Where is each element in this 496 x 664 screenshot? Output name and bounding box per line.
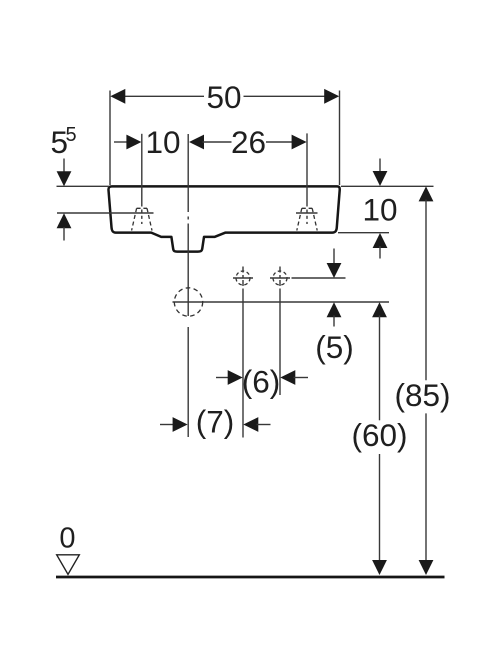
- svg-text:(85): (85): [394, 377, 450, 413]
- svg-text:(6): (6): [242, 364, 281, 400]
- dimension 26 line and right arrow: [266, 141, 294, 143]
- centerline right tap hole: [306, 133, 308, 206]
- wire level line basin-top left: [57, 185, 110, 187]
- centerline drain/trap vertical: [187, 134, 189, 212]
- wire tap-hole level line: [57, 212, 154, 214]
- svg-text:(60): (60): [351, 417, 407, 453]
- dimension 10 top: stem and arrow: [114, 141, 129, 143]
- svg-text:50: 50: [206, 79, 241, 115]
- left tap hole symbol: [132, 208, 152, 230]
- right tap hole symbol: [297, 208, 317, 230]
- dimension 50 arrow left: [110, 89, 125, 104]
- shared arrow between 10 and 26: [189, 135, 204, 150]
- svg-text:(5): (5): [315, 329, 354, 365]
- trap hole dashed circle: [174, 288, 202, 316]
- extension line right of 50 dim: [339, 91, 341, 186]
- basin outline: [108, 186, 339, 251]
- dimension (5) arrows: [333, 249, 335, 266]
- svg-text:26: 26: [231, 124, 266, 160]
- wire trap level line: [173, 301, 390, 303]
- dimension (85) vertical: [419, 186, 434, 201]
- wire level line basin-top right: [341, 185, 434, 187]
- svg-text:(7): (7): [196, 404, 235, 440]
- svg-text:10: 10: [145, 124, 180, 160]
- svg-text:5: 5: [66, 124, 77, 146]
- dimension 10 right arrows: [379, 159, 381, 174]
- dimension 50 line: [123, 95, 326, 97]
- svg-text:10: 10: [362, 192, 397, 228]
- wire basin-bottom level line right: [338, 232, 389, 234]
- dimension (6): [216, 377, 230, 379]
- fixing hole left: [236, 271, 250, 285]
- ground line: [56, 576, 445, 579]
- wire fixing-hole level line: [292, 277, 346, 279]
- fixing hole right: [273, 271, 287, 285]
- svg-text:0: 0: [59, 523, 75, 555]
- right tap hole cross tick: [296, 212, 318, 214]
- dimension (60) vertical: [372, 302, 387, 317]
- fixing hole left vertical extension: [242, 290, 244, 438]
- dimension (7): [160, 424, 174, 426]
- datum triangle: [57, 555, 80, 575]
- centerline left tap hole: [141, 134, 143, 207]
- fixing hole right vertical extension: [279, 290, 281, 395]
- dimension 5^5 arrows: [63, 159, 65, 173]
- dimension 50 arrow right: [324, 89, 339, 104]
- extension line left of 50 dim: [109, 91, 111, 186]
